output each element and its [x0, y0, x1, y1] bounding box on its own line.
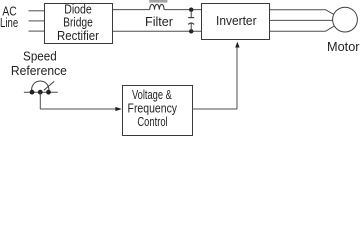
wire inverter output phase 1	[270, 10, 334, 15]
wire riser up to inverter	[236, 47, 238, 109]
wire AC line input phase 3	[29, 30, 45, 32]
block diode bridge rectifier	[45, 2, 113, 44]
potentiometer speed reference	[24, 81, 58, 95]
svg-text:Line: Line	[0, 15, 18, 30]
inductor core bar	[149, 0, 167, 3]
junction bottom DC bus	[189, 29, 193, 33]
inductor filter choke	[150, 4, 164, 9]
wire pot wiper down	[39, 92, 41, 109]
junction top DC bus	[189, 8, 193, 12]
node label AC Line	[0, 4, 18, 31]
svg-text:Filter: Filter	[145, 14, 174, 29]
block inverter	[202, 4, 270, 40]
wire AC line input phase 1	[29, 10, 45, 12]
svg-text:Inverter: Inverter	[216, 13, 257, 28]
arrowhead into inverter	[235, 42, 239, 48]
wire DC bus negative: rectifier to inverter	[113, 30, 202, 32]
wire DC bus positive: rectifier to inductor	[113, 9, 150, 11]
svg-text:Motor: Motor	[327, 39, 360, 54]
wire pot to control block	[40, 108, 116, 110]
wire inverter output phase 3	[270, 26, 334, 31]
capacitor filter (polarized)	[188, 10, 194, 32]
svg-text:Rectifier: Rectifier	[57, 28, 99, 43]
wire control block to riser	[192, 108, 237, 110]
label Speed Reference	[11, 49, 67, 78]
svg-text:Speed: Speed	[23, 49, 57, 64]
block voltage and frequency control	[123, 86, 193, 136]
svg-text:Reference: Reference	[11, 63, 67, 78]
wire inverter output phase 2	[270, 19, 333, 21]
svg-text:Control: Control	[137, 114, 167, 129]
motor M	[333, 7, 358, 32]
wire AC line input phase 2	[29, 20, 45, 22]
wire inductor to inverter (top DC bus)	[164, 9, 201, 11]
arrowhead into control block	[115, 107, 121, 111]
